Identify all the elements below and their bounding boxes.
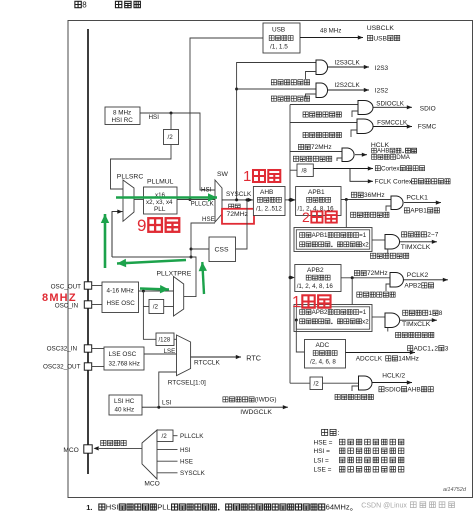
- svg-text:AHB: AHB: [407, 386, 420, 393]
- svg-text:CSDN @Linux: CSDN @Linux: [361, 503, 407, 510]
- label 外设时钟使能 I2S3: [271, 80, 309, 85]
- wire /8 to Cortex: [313, 166, 373, 170]
- svg-text:SDIO: SDIO: [420, 105, 436, 112]
- svg-text:8: 8: [439, 310, 443, 317]
- svg-text:SDIOCLK: SDIOCLK: [376, 101, 404, 108]
- svg-text:AHB: AHB: [260, 189, 273, 196]
- box HSI RC oscillator: [105, 107, 140, 125]
- svg-text:1: 1: [243, 168, 251, 185]
- label 最大72MHz: [298, 144, 331, 151]
- wire x2 to TIM18 gate: [372, 316, 385, 318]
- wire PCLK2 enable: [386, 284, 390, 291]
- svg-text:LSE OSC: LSE OSC: [109, 351, 137, 358]
- wire TIMX enable: [387, 249, 389, 253]
- wire HCLK rail: [289, 105, 291, 384]
- svg-text:14MHz: 14MHz: [398, 356, 419, 363]
- wire HSE rail to SW: [190, 223, 216, 259]
- svg-text:Cortex: Cortex: [381, 165, 400, 172]
- pin OSC32_OUT: [84, 363, 91, 370]
- svg-text:MCO: MCO: [63, 447, 78, 454]
- legend HSI: [314, 448, 404, 455]
- label 外设时钟使能 TIMx: [396, 332, 434, 337]
- label ai14752d: [443, 487, 467, 493]
- svg-text:HSE OSC: HSE OSC: [107, 300, 136, 307]
- svg-text:2~7: 2~7: [427, 232, 438, 239]
- annotation 1分频 APB2 red: [292, 294, 331, 311]
- annotation green arrow into PLLXTPRE: [140, 285, 169, 293]
- wire HSE into PLLSRC: [112, 210, 123, 258]
- svg-text:AHB: AHB: [377, 149, 389, 155]
- wire HSE to CSS: [191, 248, 209, 250]
- svg-text:USB: USB: [373, 35, 387, 42]
- svg-text:I2S3CLK: I2S3CLK: [335, 59, 361, 66]
- wire HCLK out: [355, 153, 367, 157]
- annotation green arrow up HSE: [199, 262, 207, 294]
- label PCLK2 APB2外设: [404, 272, 433, 289]
- svg-text:LSI HC: LSI HC: [114, 398, 135, 405]
- label 至Cortex系统时钟: [375, 165, 424, 172]
- label HCLK/2: [382, 373, 405, 380]
- svg-text:LSE: LSE: [164, 348, 176, 355]
- annotation 8MHZ red: [42, 292, 77, 304]
- label OSC32_IN: [47, 346, 78, 353]
- svg-text:3: 3: [445, 345, 449, 352]
- box APB2 频率x2 conditional: [294, 305, 372, 332]
- wire PLLCLK to SW: [177, 199, 215, 201]
- svg-text:DMA: DMA: [396, 154, 411, 161]
- label LSI: [162, 400, 172, 407]
- wire I2S2 branch: [235, 88, 317, 91]
- wire AHB to APB1: [285, 198, 296, 202]
- label PLLMUL: [147, 179, 174, 186]
- box AHB prescaler: [253, 187, 285, 216]
- wire mco pllclk: [173, 435, 178, 437]
- svg-text:ADC: ADC: [316, 342, 330, 349]
- mux SW: [215, 180, 222, 222]
- svg-text:PCLK2: PCLK2: [407, 272, 429, 279]
- label LSE: [164, 348, 176, 355]
- svg-text:8: 8: [82, 0, 87, 9]
- box divider /2 sdio: [310, 377, 323, 390]
- svg-text:/1, 2, 4, 8, 16: /1, 2, 4, 8, 16: [297, 283, 334, 290]
- label TIMxCLK: [402, 321, 431, 328]
- wire TIMXCLK out: [400, 240, 438, 244]
- label OSC32_OUT: [43, 364, 81, 371]
- wire PLLSRC to PLL: [134, 199, 144, 201]
- svg-text:=1: =1: [359, 309, 367, 316]
- annotation 9倍频 red: [137, 216, 179, 235]
- svg-text:LSI: LSI: [162, 400, 172, 407]
- svg-text:1.: 1.: [86, 503, 92, 512]
- svg-text:/2: /2: [153, 304, 159, 311]
- svg-text:PLLCLK: PLLCLK: [180, 433, 204, 440]
- wire HCLK to /2 sdio: [290, 382, 310, 384]
- svg-text:x2, x3, x4: x2, x3, x4: [146, 199, 173, 206]
- legend LSI: [314, 457, 404, 464]
- label FSMCCLK: [377, 120, 408, 127]
- label 外设时钟使能 sdio2: [335, 394, 373, 399]
- svg-text:USBCLK: USBCLK: [367, 25, 395, 32]
- box ADC prescaler: [305, 340, 346, 369]
- svg-text:64MHz: 64MHz: [326, 503, 350, 512]
- svg-text:40 kHz: 40 kHz: [115, 407, 135, 414]
- svg-text:USB: USB: [272, 27, 285, 34]
- label 外设时钟使能 PCLK2: [357, 292, 395, 297]
- wire I2S2CLK out: [328, 88, 370, 92]
- svg-text:72MHz: 72MHz: [367, 270, 388, 277]
- svg-text:/2: /2: [314, 380, 320, 387]
- svg-text:APB1: APB1: [410, 208, 427, 215]
- label USBCLK 至USB接口: [367, 25, 400, 42]
- label FCLK cjk part: [412, 179, 450, 184]
- label PLLCLK sw: [191, 201, 215, 208]
- label 至定时器2~7: [402, 232, 439, 239]
- wire osc_out to HSE box: [92, 285, 102, 287]
- box HSE oscillator: [102, 282, 139, 313]
- label 外设时钟使能 SDIO: [303, 112, 341, 117]
- svg-text:PCLK1: PCLK1: [406, 195, 428, 202]
- svg-text:PLL: PLL: [154, 206, 166, 213]
- label SYSCLK mco: [180, 470, 206, 477]
- label SDIO: [420, 105, 436, 112]
- svg-text:OSC32_OUT: OSC32_OUT: [43, 364, 81, 371]
- wire MCO output: [94, 446, 143, 450]
- and-gate PCLK2 gate: [390, 273, 403, 288]
- mux PLLSRC: [123, 180, 134, 221]
- label MCO pin: [63, 447, 78, 454]
- svg-text:CSS: CSS: [215, 247, 229, 254]
- svg-text:8 MHz: 8 MHz: [113, 110, 131, 117]
- and-gate SDIO clock gate: [358, 101, 373, 115]
- wire PCLK1: [341, 198, 391, 201]
- svg-text:8MHZ: 8MHZ: [42, 292, 77, 304]
- annotation 1分频 AHB red: [243, 168, 280, 185]
- and-gate I2S3 clock gate: [316, 60, 328, 75]
- and-gate I2S2 clock gate: [316, 83, 328, 98]
- wire FSMCCLK out: [373, 124, 412, 128]
- box divider /128: [156, 333, 174, 346]
- wire HCLK enable: [337, 158, 342, 161]
- svg-text:OSC32_IN: OSC32_IN: [47, 346, 78, 353]
- title 图8 时钟树: [75, 0, 141, 9]
- svg-text:SYSCLK: SYSCLK: [226, 191, 252, 198]
- and-gate TIMxCLK1-8 gate: [385, 313, 400, 328]
- svg-text:1: 1: [292, 294, 301, 311]
- svg-text:I2S3: I2S3: [375, 65, 389, 72]
- wire osc32out to LSE: [92, 366, 104, 368]
- label I2S3CLK: [335, 59, 361, 66]
- label 外设时钟使能 FSMC: [303, 132, 341, 137]
- svg-text:/2: /2: [168, 134, 174, 141]
- box USB prescaler: [263, 23, 300, 53]
- svg-text:FCLK Cortex: FCLK Cortex: [375, 179, 413, 186]
- svg-text:ai14752d: ai14752d: [443, 487, 467, 493]
- svg-text:APB2: APB2: [312, 309, 328, 316]
- annotation red box 72MHz: [222, 209, 254, 224]
- wire SDIO enable: [352, 111, 358, 117]
- wire osc_in to HSE box: [92, 304, 102, 306]
- wire mco hse: [157, 460, 178, 462]
- label 最大 72MHz sys: [227, 204, 249, 218]
- annotation green arrow up to PLLSRC: [101, 214, 109, 268]
- frame border: [68, 21, 473, 498]
- label RTC: [246, 354, 261, 363]
- wire SDIOCLK out: [373, 105, 412, 109]
- wire CSS up to SYSCLK: [236, 200, 248, 249]
- label FCLK Cortex自由运行时钟: [375, 179, 413, 186]
- svg-text:x2: x2: [362, 241, 369, 248]
- label RTCSEL: [168, 380, 206, 387]
- box divider /2 mco: [157, 430, 173, 442]
- svg-text::: :: [338, 430, 340, 437]
- label HSE sw: [202, 216, 215, 223]
- svg-text:APB1: APB1: [312, 232, 328, 239]
- wire PCLK1 enable: [386, 206, 391, 211]
- label 至独立看门狗 IWDG: [223, 397, 277, 404]
- svg-text:HSI =: HSI =: [314, 448, 331, 455]
- pin MCO: [84, 445, 92, 453]
- label FSMC: [418, 124, 437, 131]
- label IWDGCLK: [240, 409, 272, 416]
- svg-text:TIMXCLK: TIMXCLK: [401, 244, 431, 251]
- svg-text:RTCSEL[1:0]: RTCSEL[1:0]: [168, 380, 206, 387]
- svg-text:SYSCLK: SYSCLK: [180, 470, 206, 477]
- wire mco hsi: [157, 449, 178, 451]
- label OSC_OUT: [51, 284, 82, 291]
- and-gate PCLK1 gate: [391, 196, 403, 210]
- wire HSI to /2: [170, 113, 172, 130]
- svg-text:RTCCLK: RTCCLK: [194, 360, 221, 367]
- footnote note 1: [86, 503, 352, 512]
- wire FSMC enable: [351, 130, 357, 137]
- legend HSE: [314, 439, 404, 446]
- annotation green arrow PLL path: [116, 193, 217, 201]
- wire LSI to IWDG: [142, 405, 288, 409]
- svg-text:=1: =1: [359, 232, 367, 239]
- box PLL multiplier: [144, 187, 178, 214]
- svg-text:TIMxCLK: TIMxCLK: [402, 321, 431, 328]
- svg-text:I2S2CLK: I2S2CLK: [335, 82, 361, 89]
- svg-text:PLLMUL: PLLMUL: [147, 179, 174, 186]
- svg-text:4-16 MHz: 4-16 MHz: [107, 288, 134, 295]
- wire HSE output: [139, 290, 174, 293]
- annotation green arrow left: [117, 259, 186, 267]
- wire x2 to TIM gate: [372, 239, 385, 241]
- wire mco sysclk: [157, 472, 178, 474]
- label HSI: [149, 114, 160, 121]
- label TIMXCLK: [401, 244, 431, 251]
- wire TIMxCLK out: [400, 318, 437, 322]
- svg-text:IWDGCLK: IWDGCLK: [240, 409, 272, 416]
- wire FCLK branch: [350, 169, 373, 184]
- svg-text:ADC1: ADC1: [414, 345, 432, 352]
- svg-text:(IWDG): (IWDG): [255, 397, 277, 404]
- svg-text:/8: /8: [302, 167, 308, 174]
- svg-text:MCO: MCO: [144, 481, 159, 488]
- label 至SDIO的AHB接口: [379, 386, 433, 393]
- svg-text:APB2: APB2: [307, 267, 324, 274]
- svg-text:PLLCLK: PLLCLK: [191, 201, 215, 208]
- legend 图例: [322, 429, 340, 437]
- svg-text:PLL: PLL: [157, 503, 171, 512]
- label 至ADC1 2或3: [408, 345, 449, 352]
- wire HCLK/2 out: [372, 380, 412, 384]
- mux PLLXTPRE: [174, 277, 184, 317]
- label I2S2: [375, 88, 389, 95]
- wire osc32in to LSE: [92, 348, 104, 350]
- wire /128 to RTCSEL: [174, 338, 177, 340]
- wire PCLK2 to ADC: [295, 319, 305, 353]
- label 最大36MHz: [351, 192, 384, 199]
- wire SYSCLK rail: [235, 63, 316, 202]
- svg-text:72MHz: 72MHz: [227, 211, 249, 218]
- wire HSI/2 to PLLSRC: [111, 145, 172, 190]
- mux MCO: [142, 430, 157, 479]
- label HSI mco: [180, 447, 191, 454]
- label SYSCLK: [226, 191, 252, 198]
- svg-text:SDIO: SDIO: [385, 386, 401, 393]
- label I2S3: [375, 65, 389, 72]
- svg-text:APB1: APB1: [308, 189, 325, 196]
- watermark CSDN: [361, 502, 454, 510]
- box divider /2 hse: [149, 300, 164, 314]
- and-gate FSMC clock gate: [357, 119, 373, 134]
- label RTCCLK: [194, 360, 221, 367]
- svg-text:72MHz: 72MHz: [311, 144, 332, 151]
- svg-text:I2S2: I2S2: [375, 88, 389, 95]
- label HCLK 至AHB总线核心存储器和DMA: [371, 142, 417, 161]
- wire rail to /8: [290, 169, 297, 171]
- label 外设时钟使能 TIMX: [370, 253, 408, 258]
- wire APB2 to x2 box: [351, 278, 353, 305]
- label 最大72MHz apb2: [354, 270, 387, 277]
- box divider /2 HSI: [164, 130, 179, 145]
- svg-text:HSE: HSE: [180, 458, 193, 465]
- svg-text:LSE =: LSE =: [314, 467, 332, 474]
- label I2S2CLK: [335, 82, 361, 89]
- wire I2S3CLK out: [328, 65, 370, 69]
- wire TIMx enable: [387, 328, 389, 332]
- svg-text:HSE =: HSE =: [314, 439, 333, 446]
- svg-text:48 MHz: 48 MHz: [320, 28, 341, 35]
- svg-text:32.768 kHz: 32.768 kHz: [109, 361, 140, 368]
- label ADCCLK 最大14MHz: [356, 356, 419, 363]
- label PLLXTPRE: [157, 271, 192, 278]
- and-gate TIMXCLK2-7 gate: [385, 235, 400, 250]
- label 外设时钟使能 PCLK1: [351, 212, 389, 217]
- wire register interface bus: [87, 29, 89, 474]
- svg-text:/2: /2: [162, 433, 168, 440]
- wire PLLCLK rail to USB prescaler: [189, 38, 264, 201]
- wire PLLXTPRE output up: [112, 257, 196, 297]
- label PCLK1 至APB1外设: [404, 195, 439, 215]
- box APB1 prescaler: [296, 187, 341, 216]
- svg-text:x2: x2: [362, 318, 369, 325]
- label OSC_IN: [55, 302, 79, 309]
- wire /2 to sdio gate: [323, 382, 359, 384]
- wire /2 to PLLXTPRE: [164, 306, 174, 308]
- box LSI RC oscillator: [109, 395, 142, 415]
- svg-text:FSMC: FSMC: [418, 124, 437, 131]
- svg-text:LSI =: LSI =: [314, 457, 330, 464]
- wire HCLK to AHB gate: [290, 151, 342, 153]
- wire HCLK to FSMC gate: [290, 122, 357, 124]
- mux RTCSEL: [177, 335, 191, 376]
- box APB1 频率x2 conditional: [294, 228, 372, 252]
- wire HSI to rail: [140, 112, 215, 191]
- svg-text:HCLK/2: HCLK/2: [382, 373, 405, 380]
- svg-text:RTC: RTC: [246, 354, 261, 363]
- wire I2S3 enable: [306, 72, 317, 80]
- wire HCLK to SDIO gate: [290, 104, 358, 106]
- and-gate HCLK/2 SDIO gate: [359, 376, 373, 390]
- wire USBCLK: [300, 35, 363, 39]
- wire RTCCLK: [191, 355, 241, 359]
- svg-text:2: 2: [434, 345, 438, 352]
- label HSI sw: [201, 186, 212, 193]
- svg-text:SW: SW: [217, 171, 229, 178]
- wire APB1 to x2 box: [345, 200, 347, 228]
- svg-text:HSI: HSI: [201, 186, 212, 193]
- svg-text:9: 9: [137, 216, 146, 235]
- wire sdio2 enable: [352, 386, 359, 391]
- svg-text:/1, 2..512: /1, 2..512: [256, 206, 282, 213]
- pin OSC_IN: [84, 301, 91, 308]
- label 外设时钟使能 HCLK: [293, 156, 331, 161]
- svg-text:/1, 1.5: /1, 1.5: [270, 44, 288, 51]
- wire HSE down to /2 and /128: [143, 291, 156, 339]
- and-gate HCLK AHB gate: [342, 148, 354, 162]
- wire LSE to RTCSEL: [144, 353, 177, 355]
- wire PCLK1 out: [404, 201, 441, 205]
- label 主时钟输出: [101, 440, 126, 445]
- label SDIOCLK: [376, 101, 404, 108]
- annotation 2分频 red: [302, 209, 337, 225]
- pin OSC_OUT: [84, 282, 91, 289]
- svg-text:1: 1: [429, 310, 433, 317]
- label 至定时器1和8: [403, 310, 443, 317]
- svg-text:PLLSRC: PLLSRC: [117, 174, 144, 181]
- svg-text:HSI: HSI: [149, 114, 160, 121]
- svg-text:APB2: APB2: [404, 283, 421, 290]
- label 外设时钟使能 I2S2: [271, 96, 309, 101]
- svg-text:/128: /128: [159, 337, 171, 343]
- legend LSE: [314, 467, 404, 474]
- svg-text:HSI: HSI: [106, 503, 119, 512]
- pin OSC32_IN: [84, 345, 91, 352]
- box divider /8: [297, 164, 313, 177]
- svg-text:HSE: HSE: [202, 216, 215, 223]
- wire HCLK to APB2: [289, 275, 295, 279]
- wire I2S2 enable: [306, 94, 317, 98]
- svg-text:ADCCLK: ADCCLK: [356, 356, 383, 363]
- box LSE oscillator: [104, 347, 144, 370]
- svg-text:2: 2: [302, 209, 310, 225]
- wire PCLK2 out: [403, 278, 448, 282]
- svg-text:HSI RC: HSI RC: [112, 117, 134, 124]
- label 48 MHz: [320, 28, 341, 35]
- label HSE mco: [180, 458, 193, 465]
- svg-text:FSMCCLK: FSMCCLK: [377, 120, 408, 127]
- box CSS: [209, 237, 236, 262]
- label PLLCLK mco: [180, 433, 204, 440]
- box APB2 prescaler: [295, 265, 341, 292]
- svg-text:OSC_OUT: OSC_OUT: [51, 284, 82, 291]
- svg-text:HSI: HSI: [180, 447, 191, 454]
- label MCO mux: [144, 481, 159, 488]
- svg-text:36MHz: 36MHz: [364, 192, 385, 199]
- wire ADCCLK out: [346, 350, 416, 354]
